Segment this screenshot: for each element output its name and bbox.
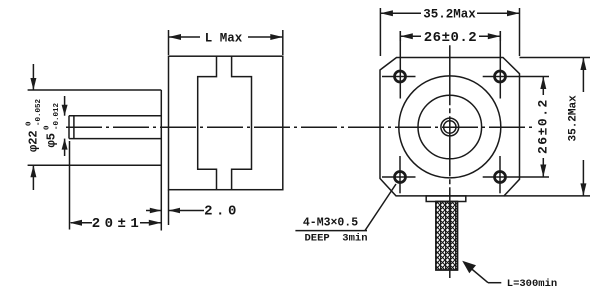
dimension phi22 arrows: [30, 64, 36, 190]
svg-text:26±0.2: 26±0.2: [536, 98, 551, 154]
mounting hole bottom-right: [483, 156, 549, 193]
mounting hole top-right: [483, 31, 549, 99]
svg-text:-0.052: -0.052: [35, 98, 43, 126]
dimension 2.0: [146, 208, 204, 214]
mounting hole bottom-left: [382, 156, 416, 193]
cable crosshatched: [436, 202, 458, 271]
rotor spool outline inside body: [198, 56, 252, 190]
dimension L Max: [169, 30, 283, 55]
svg-text:35.2Max: 35.2Max: [568, 95, 580, 142]
svg-text:0: 0: [44, 125, 52, 130]
svg-text:4-M3×0.5: 4-M3×0.5: [303, 217, 358, 230]
vertical centerline front view: [449, 45, 451, 278]
pilot circle large: [399, 76, 501, 178]
dimension 26±0.2 right side: [540, 77, 546, 178]
svg-text:L Max: L Max: [205, 32, 243, 46]
dimension 35.2Max right side: [504, 58, 590, 196]
body front edge extension: [168, 190, 170, 225]
svg-text:DEEP 3min: DEEP 3min: [304, 233, 367, 245]
svg-text:φ5: φ5: [45, 133, 59, 147]
connector tab: [426, 196, 466, 202]
pilot circle medium: [418, 95, 482, 159]
dimension 26±0.2 top: [400, 31, 500, 41]
svg-text:2.0: 2.0: [204, 204, 240, 220]
front view body square with chamfers: [380, 58, 520, 196]
shaft circle inner: [444, 121, 456, 133]
text phi5 tolerance (rotated): [44, 102, 62, 147]
dimension phi5 arrows: [62, 96, 68, 156]
svg-text:φ22: φ22: [27, 130, 41, 152]
svg-text:35.2Max: 35.2Max: [423, 8, 476, 22]
dimension 20±1: [70, 141, 162, 230]
horizontal centerline: [66, 126, 535, 128]
motor body side view: [169, 56, 283, 190]
shaft boss small circle: [441, 118, 459, 136]
svg-text:26±0.2: 26±0.2: [424, 30, 477, 46]
leader cable length: [462, 261, 501, 283]
leader 4-M3 screws: [295, 184, 396, 231]
svg-text:20±1: 20±1: [92, 216, 144, 232]
text phi22 tolerance (rotated): [26, 98, 44, 152]
front pilot boss face: [28, 90, 162, 231]
svg-text:0: 0: [26, 121, 34, 126]
svg-text:-0.012: -0.012: [53, 102, 61, 130]
mounting hole top-left: [382, 31, 416, 99]
dimension 35.2Max top: [380, 8, 519, 56]
shaft: [69, 116, 161, 139]
svg-text:L=300min: L=300min: [507, 278, 557, 290]
